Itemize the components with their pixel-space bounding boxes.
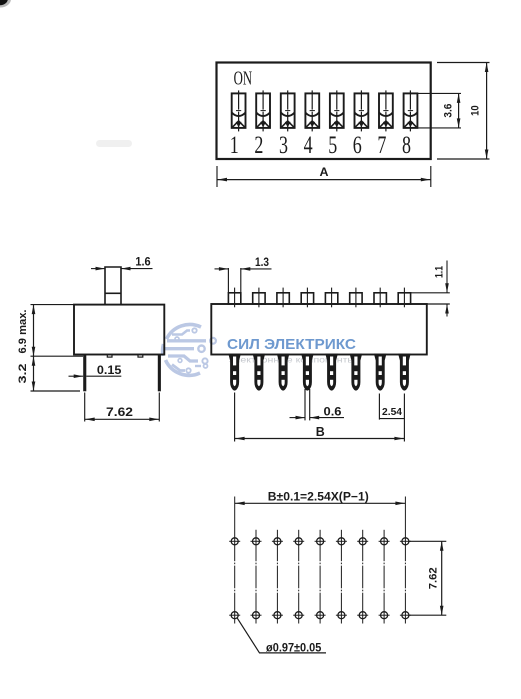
pad column 5 centerline	[319, 530, 321, 624]
side view body	[74, 305, 164, 355]
front actuator tab 1	[228, 293, 240, 304]
front pin 3	[277, 354, 290, 391]
dim 0.6 extension lines	[304, 389, 306, 420]
svg-text:4: 4	[304, 132, 313, 159]
pad column 4 centerline	[298, 530, 300, 624]
dim 7.62 row extension lines	[409, 540, 446, 542]
dim 1.6 arrows	[91, 268, 105, 270]
dim B extension line left	[234, 393, 236, 442]
pad top row hole 8	[379, 538, 390, 545]
front actuator tab 3	[277, 293, 289, 304]
front pin 8	[398, 354, 411, 391]
dim 10 extension lines	[437, 62, 490, 64]
svg-text:СИЛ ЭЛЕКТРИКС: СИЛ ЭЛЕКТРИКС	[227, 336, 356, 353]
pad column 9 centerline	[404, 497, 406, 624]
svg-text:1.6: 1.6	[135, 255, 151, 269]
svg-text:2: 2	[254, 132, 263, 159]
svg-text:ON: ON	[234, 67, 253, 89]
svg-text:0.6: 0.6	[324, 404, 342, 418]
dim 7.62 row line	[441, 541, 443, 615]
dim 1.1 extension lines	[411, 292, 450, 294]
pad bottom row hole 4	[293, 612, 304, 619]
svg-text:7.62: 7.62	[427, 567, 439, 589]
svg-text:8: 8	[402, 132, 411, 159]
pad bottom row hole 2	[251, 612, 262, 619]
top view body outline	[217, 63, 431, 160]
switch 1 slot	[232, 90, 246, 131]
switch 3 slot	[281, 90, 295, 131]
pad top row hole 3	[272, 538, 283, 545]
front pin 1	[228, 354, 241, 391]
switch 7 slot	[379, 90, 393, 131]
svg-text:A: A	[320, 165, 329, 179]
dim 1.3 arrows	[215, 268, 229, 270]
svg-text:2.54: 2.54	[382, 406, 402, 418]
svg-text:0.15: 0.15	[97, 363, 122, 377]
pad top row hole 6	[336, 538, 347, 545]
svg-text:1: 1	[230, 132, 239, 159]
front pin 5	[325, 354, 338, 391]
pad bottom row hole 5	[315, 612, 326, 619]
pad top row hole 2	[251, 538, 262, 545]
scan smudge	[96, 140, 132, 147]
dim 0.15 arrow and leader	[69, 375, 84, 377]
dim 7.62 line	[85, 418, 160, 420]
pad bottom row hole 3	[272, 612, 283, 619]
front actuator tab 4	[301, 293, 313, 304]
pad column 7 centerline	[362, 530, 364, 624]
side left extension lines	[31, 304, 75, 306]
svg-text:6.9 max.: 6.9 max.	[17, 310, 29, 354]
svg-text:B±0.1=2.54X(P−1): B±0.1=2.54X(P−1)	[268, 490, 369, 504]
dim B line	[235, 438, 405, 440]
dim 2.54 underline	[379, 418, 404, 420]
front view body	[211, 304, 426, 355]
front actuator tab 6	[350, 293, 362, 304]
svg-text:1.1: 1.1	[434, 266, 446, 278]
scan artifact blob	[0, 0, 11, 8]
dim A extension lines	[216, 166, 218, 187]
front pin 7	[374, 354, 387, 391]
pad column 1 centerline	[234, 497, 236, 624]
switch 4 slot	[305, 90, 319, 131]
svg-text:3: 3	[279, 132, 288, 159]
dim 6.9 line	[33, 305, 35, 357]
svg-text:ø0.97±0.05: ø0.97±0.05	[266, 643, 322, 655]
side view left pin	[83, 355, 86, 392]
svg-text:7.62: 7.62	[106, 405, 133, 419]
dim 7.62 extension lines	[84, 393, 86, 422]
pad top row hole 7	[357, 538, 368, 545]
pad column 8 centerline	[383, 530, 385, 624]
dim B pitch line	[235, 502, 406, 504]
switch 8 slot	[404, 90, 418, 131]
pad bottom row hole 7	[357, 612, 368, 619]
side view pegs	[107, 355, 112, 358]
front pin 6	[350, 354, 363, 391]
dim 2.54 extension lines	[378, 394, 380, 420]
pad top row hole 9	[400, 538, 411, 545]
front actuator tab 5	[325, 293, 337, 304]
front actuator tab 7	[374, 293, 386, 304]
pad bottom row hole 1	[229, 612, 240, 619]
front actuator tab 2	[253, 293, 265, 304]
dim 1.1 line	[446, 261, 448, 293]
pad top row hole 1	[229, 538, 240, 545]
side view right pin	[158, 355, 161, 392]
dim 1.3 extension lines	[227, 268, 229, 293]
pad top row hole 4	[293, 538, 304, 545]
svg-text:5: 5	[328, 132, 337, 159]
pad bottom row hole 9	[400, 612, 411, 619]
switch 6 slot	[355, 90, 369, 131]
svg-text:B: B	[316, 425, 325, 439]
pad column 6 centerline	[340, 530, 342, 624]
svg-text:10: 10	[469, 105, 481, 116]
dim 0.6 arrows	[290, 417, 306, 419]
front actuator tab 8	[398, 293, 410, 304]
dim 3.6 line	[458, 93, 460, 128]
watermark logo	[162, 324, 216, 375]
pad top row hole 5	[315, 538, 326, 545]
side view actuator	[105, 267, 121, 305]
switch 2 slot	[256, 90, 270, 131]
dim 3.2 line	[33, 356, 35, 391]
front pin 2	[253, 354, 266, 391]
pad column 2 centerline	[255, 530, 257, 624]
pad column 3 centerline	[276, 530, 278, 624]
dim 10 line	[486, 63, 488, 160]
front pin 4	[301, 354, 314, 391]
dim A line	[217, 179, 431, 181]
svg-text:1.3: 1.3	[255, 255, 269, 269]
svg-text:3.2: 3.2	[17, 364, 29, 384]
svg-text:3.6: 3.6	[442, 104, 454, 118]
pad bottom row hole 6	[336, 612, 347, 619]
svg-text:6: 6	[353, 132, 362, 159]
dim 3.6 extension lines	[417, 92, 461, 94]
pad bottom row hole 8	[379, 612, 390, 619]
hole diameter leader	[237, 618, 326, 653]
switch 5 slot	[330, 90, 344, 131]
svg-text:7: 7	[377, 132, 386, 159]
